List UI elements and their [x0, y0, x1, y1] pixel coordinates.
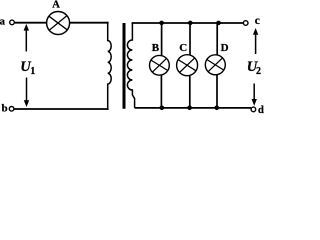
junction dot top D — [216, 21, 221, 26]
wire top-right rail — [132, 22, 244, 24]
wire a to lamp A — [15, 22, 47, 24]
voltage arrow U2 down — [252, 84, 257, 106]
primary coil — [108, 22, 112, 110]
svg-text:b: b — [2, 103, 8, 115]
lamp C — [177, 55, 198, 76]
junction dot top B — [159, 21, 164, 26]
wire lamp C to bottom rail — [189, 75, 191, 108]
wire lamp B to bottom rail — [160, 75, 162, 108]
voltage arrow U1 up — [24, 24, 29, 52]
wire lamp A to transformer — [70, 22, 109, 24]
svg-text:2: 2 — [256, 66, 261, 77]
svg-text:A: A — [52, 0, 60, 10]
wire bottom-right rail — [135, 107, 251, 109]
wire drop to lamp B — [161, 23, 163, 56]
terminal a — [10, 20, 15, 25]
voltage arrow U2 up — [253, 28, 258, 54]
wire lamp D to bottom rail — [216, 74, 218, 108]
svg-text:D: D — [221, 42, 229, 54]
transformer core — [123, 23, 126, 109]
secondary coil — [127, 23, 134, 108]
junction dot top C — [188, 21, 193, 26]
wire drop to lamp C — [189, 23, 191, 55]
svg-text:C: C — [179, 42, 187, 54]
terminal b — [9, 107, 14, 112]
voltage arrow U1 down — [24, 78, 29, 108]
lamp B — [150, 55, 170, 75]
junction dot bottom D — [215, 106, 220, 111]
junction dot bottom C — [187, 106, 192, 111]
svg-text:a: a — [0, 16, 6, 28]
wire drop to lamp D — [216, 23, 218, 55]
svg-text:B: B — [152, 42, 160, 54]
svg-text:1: 1 — [30, 66, 35, 77]
terminal d — [251, 107, 256, 112]
lamp D — [205, 55, 225, 75]
lamp A — [47, 12, 70, 35]
svg-text:d: d — [258, 105, 264, 116]
junction dot bottom B — [160, 106, 165, 111]
terminal c — [243, 21, 248, 26]
wire b to transformer — [14, 108, 108, 110]
svg-text:c: c — [255, 15, 260, 27]
